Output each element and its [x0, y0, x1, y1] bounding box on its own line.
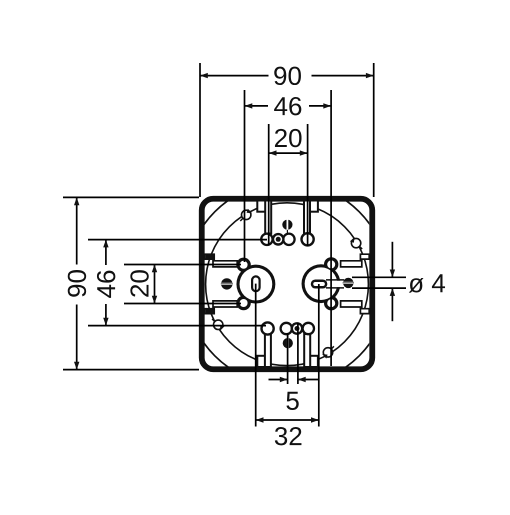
box outline: [202, 199, 373, 370]
extension line 20 top-right: [307, 124, 309, 246]
bottom cluster: left wall tab: [257, 356, 267, 367]
extension line left-20 bottom: [124, 303, 241, 305]
bottom cluster: left neck channel: [265, 334, 271, 367]
dimension 32 bottom: [256, 417, 319, 445]
corner arc circle (clipped to box interior): [185, 182, 389, 386]
twist mark top-right: [350, 237, 362, 249]
top cluster: right neck channel: [304, 201, 310, 234]
bottom cluster slotted disc: [283, 334, 293, 348]
extension line left-46 bottom: [88, 325, 266, 327]
left lower strap wall bar: [206, 309, 214, 313]
top cluster: left neck channel: [265, 201, 271, 234]
extension line 5 left: [287, 333, 289, 384]
bottom cluster ring B: [281, 323, 292, 334]
bottom cluster ring A: [303, 323, 314, 334]
left fixing lug upper strap: [205, 254, 237, 267]
extension line left-20 top: [124, 264, 241, 266]
right screw slot (horizontal capsule): [312, 281, 326, 288]
top cluster: right wall tab: [308, 201, 318, 212]
extension line 20 top-left: [268, 124, 270, 246]
extension line dia4 top: [352, 276, 406, 278]
inscribed circle: [206, 203, 369, 366]
extension line left-46 top: [88, 239, 267, 241]
top cluster ring C: [302, 233, 314, 245]
bottom cluster ring C: [262, 322, 274, 334]
left screw slot (vertical capsule): [252, 276, 260, 291]
twist mark bottom-right: [322, 346, 334, 358]
right knockout circle: [302, 257, 341, 310]
dimension 90 top: [200, 63, 374, 197]
bottom cluster: right neck channel: [304, 334, 310, 367]
top cluster ring B: [283, 234, 294, 245]
left knockout circle: [236, 258, 275, 311]
dimension 20 left: [130, 265, 157, 304]
left lug screw: [221, 278, 233, 289]
right fixing lug upper strap: [341, 254, 370, 267]
top cluster ring A: [261, 234, 272, 245]
extension line 46 top-right (through box): [330, 90, 332, 366]
twist mark bottom-left: [212, 319, 224, 331]
dimension 20 top: [269, 129, 308, 156]
dimension 5 bottom: [269, 377, 319, 410]
dimension dia 4 right: [390, 242, 445, 321]
top cluster: left wall tab: [257, 201, 267, 212]
bottom cluster grommet: [291, 322, 304, 335]
extension line 32 bottom-right (through slot): [318, 284, 320, 427]
bottom cluster: right wall tab: [308, 356, 318, 367]
extension line dia4 bottom: [352, 287, 406, 289]
extension line 5 right: [297, 323, 299, 385]
right lug screw: [343, 278, 354, 288]
dimension 46 left: [93, 240, 118, 326]
extension line 32 bottom-left (through slot): [255, 284, 257, 427]
extension line 46 top-left (to petal): [244, 90, 246, 262]
dimension 90 left: [63, 197, 199, 369]
channel from slot to right lug screw: [326, 280, 344, 288]
top cluster grommet: [272, 233, 285, 246]
right fixing lug lower strap: [341, 301, 370, 314]
left upper strap wall bar: [206, 255, 214, 259]
left fixing lug lower strap: [205, 301, 237, 314]
top cluster slotted disc: [282, 219, 292, 233]
dimension 46 top: [245, 93, 332, 118]
twist mark top-left: [240, 209, 252, 221]
